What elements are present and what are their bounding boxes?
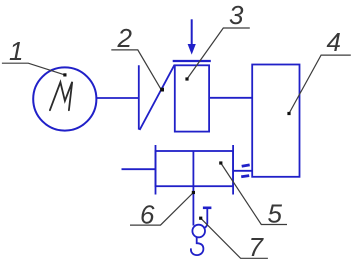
wire brake to gearbox: [209, 97, 252, 99]
svg-text:3: 3: [229, 0, 244, 30]
drum flange left: [155, 145, 157, 195]
motor letter M: [50, 82, 72, 110]
pulley 7: [192, 225, 205, 238]
drum divider: [192, 151, 194, 186]
coupling mark lower: [241, 176, 249, 177]
brake block 3: [175, 65, 209, 131]
rope anchor T: [203, 207, 212, 210]
svg-text:2: 2: [117, 23, 133, 53]
svg-text:1: 1: [9, 36, 23, 66]
svg-text:5: 5: [268, 198, 283, 228]
svg-text:4: 4: [327, 27, 341, 57]
motor M1: [33, 67, 96, 130]
belt drive pulley line 2: [138, 65, 140, 129]
brake arrow: [191, 19, 193, 45]
coupling mark upper: [242, 165, 250, 166]
brake bar: [173, 60, 211, 62]
belt diagonal: [140, 65, 175, 130]
wire motor shaft: [97, 97, 139, 99]
drum body 6: [156, 151, 234, 186]
gearbox 4: [252, 65, 299, 177]
drum flange right: [232, 145, 234, 195]
svg-text:7: 7: [249, 232, 265, 262]
wire drum to gearbox: [233, 170, 252, 172]
rope: [192, 186, 194, 225]
hook: [191, 237, 204, 255]
wire drum stub left: [122, 168, 156, 170]
